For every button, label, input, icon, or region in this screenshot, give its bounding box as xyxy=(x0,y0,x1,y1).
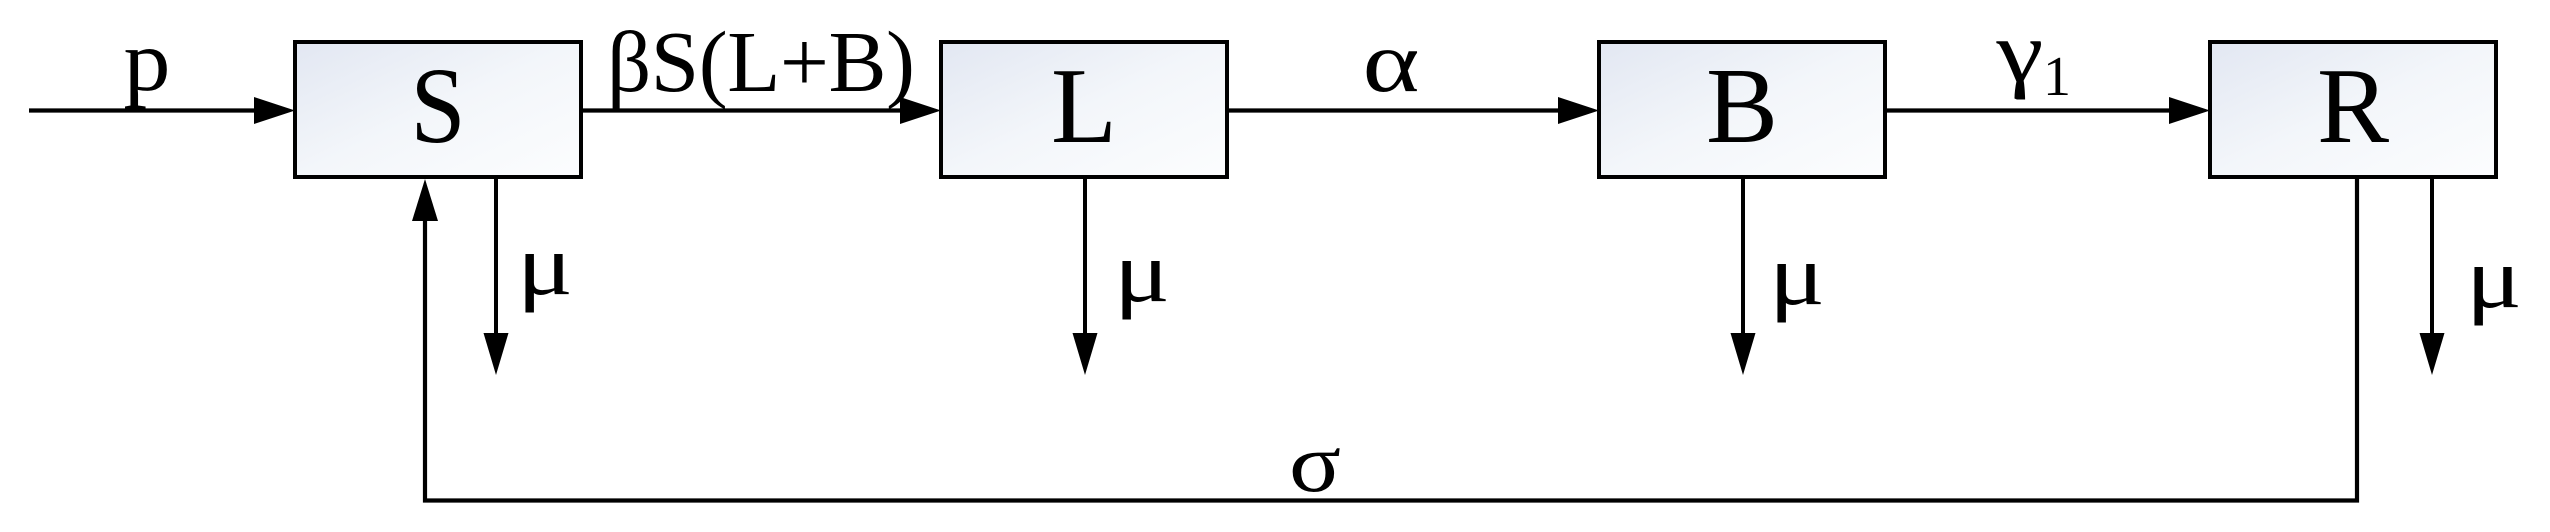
svg-text:γ: γ xyxy=(1995,4,2043,100)
svg-text:L: L xyxy=(1051,47,1117,166)
wire: arrow S to L xyxy=(581,97,941,124)
svg-text:1: 1 xyxy=(2043,46,2071,108)
svg-text:βS(L+B): βS(L+B) xyxy=(607,13,915,110)
compartment box R xyxy=(2210,42,2496,177)
svg-text:μ: μ xyxy=(2466,229,2522,326)
wire: arrow L to B xyxy=(1227,97,1599,124)
compartment box S xyxy=(295,42,581,177)
wire: mu arrow below R xyxy=(2420,178,2445,375)
svg-text:σ: σ xyxy=(1289,416,1341,510)
svg-text:μ: μ xyxy=(1114,223,1170,320)
compartment box B xyxy=(1599,42,1885,177)
svg-text:S: S xyxy=(410,47,465,166)
svg-text:α: α xyxy=(1363,14,1420,110)
label gamma1 xyxy=(1995,4,2071,108)
svg-text:μ: μ xyxy=(517,216,573,313)
wire: mu arrow below S xyxy=(484,177,509,375)
svg-text:μ: μ xyxy=(1769,226,1825,323)
wire: arrow B to R xyxy=(1885,97,2210,124)
compartment box L xyxy=(941,42,1227,177)
svg-text:p: p xyxy=(124,12,171,109)
svg-text:B: B xyxy=(1706,47,1778,166)
wire: mu arrow below B xyxy=(1731,177,1756,375)
wire: mu arrow below L xyxy=(1073,177,1098,375)
svg-text:R: R xyxy=(2317,47,2389,166)
wire: input arrow p into S xyxy=(29,97,295,124)
wire: sigma feedback path R to S xyxy=(412,178,2357,501)
